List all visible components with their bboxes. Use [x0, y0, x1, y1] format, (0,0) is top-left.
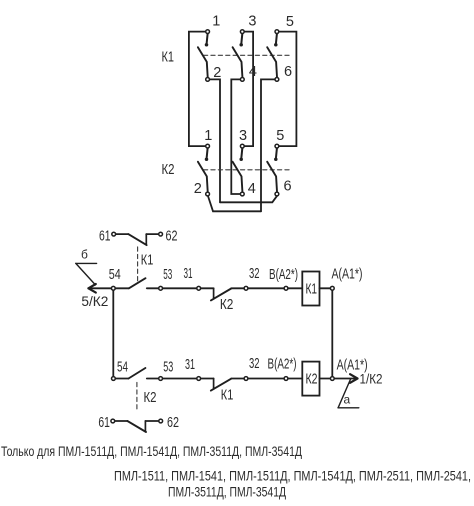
- node 32 rung2: [244, 377, 248, 381]
- K1 pin labels: [212, 14, 294, 82]
- K2 terminal 6: [275, 192, 279, 196]
- coil K2: [302, 362, 319, 396]
- K2 terminal 3: [240, 144, 244, 148]
- node 31 rung1: [197, 286, 201, 290]
- K2 mechanical linkage: [204, 169, 291, 171]
- svg-text:К1: К1: [221, 388, 234, 404]
- flag b (section marker): [76, 248, 97, 285]
- svg-text:3: 3: [239, 128, 247, 144]
- svg-text:31: 31: [184, 266, 193, 282]
- svg-text:А(А1*): А(А1*): [332, 267, 363, 283]
- K2 terminal 4: [240, 192, 244, 196]
- node 54 rung1: [111, 286, 115, 290]
- svg-text:К1: К1: [162, 50, 175, 66]
- wire L2 bus K1 pin3 to K2 pin3: [245, 32, 254, 147]
- svg-text:К1: К1: [306, 282, 318, 298]
- svg-text:ПМЛ-3511Д, ПМЛ-3541Д: ПМЛ-3511Д, ПМЛ-3541Д: [168, 483, 286, 499]
- wire coil K1 to A: [320, 287, 333, 289]
- svg-text:2: 2: [194, 181, 202, 197]
- node 31 rung2: [197, 377, 201, 381]
- wire rung1 53 to 31: [147, 287, 214, 289]
- contact K1 53-54 blade: [129, 278, 146, 288]
- wire coil K2 to A: [320, 378, 333, 380]
- svg-text:а: а: [344, 393, 351, 407]
- K2 terminal 5: [275, 144, 279, 148]
- wire rung2 left: [113, 378, 128, 380]
- K2 terminal 1: [206, 144, 210, 148]
- wire rung1 32 to coil: [231, 287, 302, 289]
- svg-text:К1: К1: [141, 252, 154, 268]
- wire node T2 to K2 pin2: [208, 196, 261, 211]
- node B(A2) rung2: [284, 377, 288, 381]
- K2 aux linkage: [136, 383, 138, 411]
- svg-text:61: 61: [98, 415, 110, 431]
- wire L3 bus K1 pin5 to K2 pin5: [279, 32, 296, 147]
- svg-text:32: 32: [249, 356, 260, 372]
- svg-text:В(А2*): В(А2*): [268, 356, 297, 372]
- svg-text:4: 4: [248, 181, 256, 197]
- svg-text:1: 1: [204, 128, 212, 144]
- svg-text:62: 62: [167, 415, 179, 431]
- contact K2 53-54 blade: [129, 368, 146, 379]
- contact K1 31-32 (NC): [211, 379, 233, 404]
- K1 aux linkage: [137, 247, 139, 283]
- K2 terminal 2: [206, 192, 210, 196]
- node A(A1) rung2: [330, 377, 334, 381]
- svg-text:31: 31: [185, 357, 195, 373]
- wire junction rung1 to rung2: [112, 288, 114, 378]
- contactor K1 pole 1-2 contact: [198, 34, 208, 77]
- rung2 labels: [117, 356, 368, 376]
- svg-text:6: 6: [284, 179, 292, 195]
- svg-text:4: 4: [249, 64, 257, 80]
- contact K1 61-62 (NC aux): [112, 232, 163, 245]
- K1 mechanical linkage: [204, 54, 291, 56]
- node 53 rung2: [159, 377, 163, 381]
- node B(A2) rung1: [284, 286, 288, 290]
- contactor K2 pole 1-2 contact: [198, 148, 208, 191]
- K1 terminal 6: [275, 78, 279, 82]
- rung1 labels: [109, 266, 363, 283]
- K1 terminal 1: [206, 30, 210, 34]
- svg-text:К2: К2: [144, 390, 157, 406]
- contactor K2 pole 3-4 contact: [233, 148, 243, 191]
- wire L1 bus K1 pin1 to K2 pin1: [189, 32, 205, 147]
- svg-text:32: 32: [249, 266, 260, 282]
- svg-text:В(А2*): В(А2*): [269, 267, 298, 283]
- K1 terminal 5: [275, 30, 279, 34]
- node 32 rung1: [244, 286, 248, 290]
- wire K1 pin2 to node T1: [210, 79, 220, 202]
- contactor K1 pole 3-4 contact: [233, 34, 243, 77]
- node 5/K2 arrow: [81, 284, 108, 309]
- svg-text:53: 53: [163, 359, 173, 375]
- svg-text:1: 1: [212, 14, 220, 30]
- svg-text:62: 62: [166, 229, 178, 245]
- svg-text:5: 5: [276, 128, 284, 144]
- flag a (section marker): [338, 379, 359, 408]
- contact K2 31-32 (NC): [211, 288, 234, 313]
- node A(A1) rung1: [330, 286, 334, 290]
- wire rung1 left: [88, 287, 128, 289]
- svg-text:5: 5: [286, 14, 294, 30]
- contactor K2 pole 5-6 contact: [267, 148, 277, 191]
- K1 terminal 3: [240, 30, 244, 34]
- svg-text:Только для ПМЛ-1511Д, ПМЛ-1541: Только для ПМЛ-1511Д, ПМЛ-1541Д, ПМЛ-351…: [1, 443, 302, 459]
- node 1/K2 arrow: [335, 371, 383, 387]
- svg-text:61: 61: [99, 229, 111, 245]
- node 53 rung1: [159, 286, 163, 290]
- svg-text:54: 54: [109, 267, 121, 283]
- svg-text:А(А1*): А(А1*): [337, 357, 368, 373]
- wire K1 pin6 to node T2: [261, 79, 275, 211]
- wire node T1 to K2 pin6: [220, 196, 277, 202]
- svg-text:К2: К2: [162, 162, 175, 178]
- wire A(A1) rung1 to rung2: [331, 288, 333, 378]
- contactor K1 pole 5-6 contact: [267, 34, 277, 77]
- wire rung2 32 to coil: [231, 378, 302, 380]
- K1 terminal 2: [206, 78, 210, 82]
- svg-text:54: 54: [117, 360, 128, 376]
- K2 pin labels: [194, 128, 292, 197]
- K1 terminal 4: [240, 78, 244, 82]
- svg-text:К2: К2: [220, 297, 234, 313]
- svg-text:53: 53: [163, 267, 172, 283]
- node 54 rung2: [112, 377, 116, 381]
- svg-text:2: 2: [213, 65, 221, 81]
- svg-text:б: б: [81, 248, 88, 262]
- svg-text:ПМЛ-1511, ПМЛ-1541, ПМЛ-1511Д,: ПМЛ-1511, ПМЛ-1541, ПМЛ-1511Д, ПМЛ-1541Д…: [114, 468, 471, 484]
- wire K1 pin4 to K2 pin4: [231, 79, 240, 194]
- wire rung2 53 to 31: [147, 378, 214, 380]
- contact K2 61-62 (NC aux): [111, 419, 163, 432]
- svg-text:3: 3: [248, 14, 256, 30]
- svg-text:К2: К2: [306, 372, 318, 388]
- svg-text:6: 6: [284, 64, 292, 80]
- svg-text:5/К2: 5/К2: [81, 293, 108, 309]
- coil K1: [302, 272, 319, 306]
